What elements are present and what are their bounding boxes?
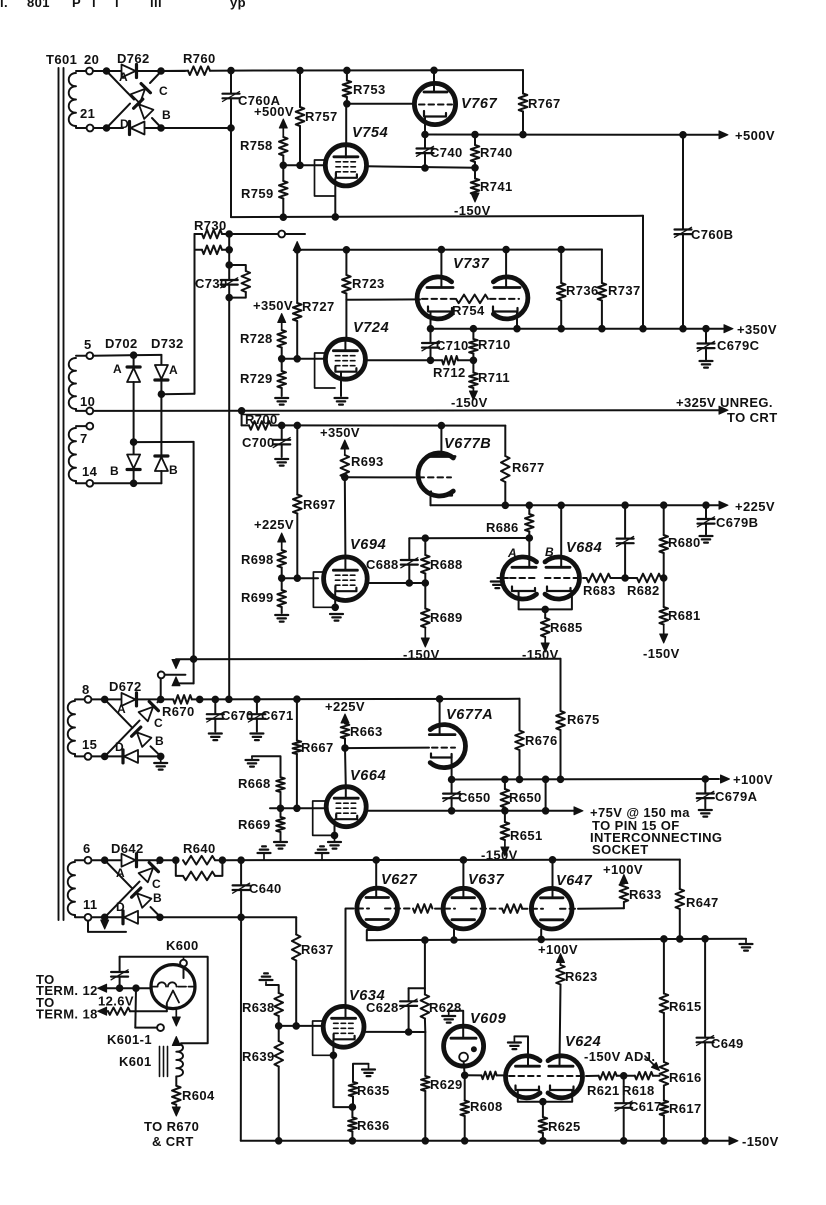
V767 cathode lead bbox=[424, 117, 426, 135]
wire jack stub bbox=[285, 233, 305, 235]
resistor parallel with C730 bbox=[229, 265, 246, 271]
ground below C670 bbox=[209, 732, 222, 734]
ground at R635 top bbox=[362, 1068, 375, 1070]
resistor R710 bbox=[472, 329, 474, 339]
label R700 box bbox=[243, 414, 279, 416]
node R608 bottom bbox=[461, 1138, 468, 1145]
diode D672 D bbox=[123, 750, 138, 763]
node R723 top bbox=[343, 247, 350, 254]
resistor R736 bbox=[557, 283, 566, 301]
V737 grid dashed line bbox=[422, 298, 455, 300]
resistor R615 bbox=[663, 939, 665, 994]
node C650 top bbox=[448, 776, 455, 783]
svg-text:R638: R638 bbox=[242, 1000, 275, 1015]
node V737 left plate bbox=[438, 246, 445, 253]
node R685 top bbox=[542, 606, 549, 613]
tube V754 bbox=[325, 145, 366, 186]
wire R753 to V767 grid bbox=[347, 103, 414, 105]
svg-text:C: C bbox=[159, 84, 168, 98]
resistor R685 bbox=[544, 609, 546, 618]
node cap top at 625 bbox=[622, 502, 629, 509]
ground below R669 bbox=[274, 841, 287, 843]
resistor R625 bbox=[542, 1102, 544, 1117]
node C640 top bbox=[238, 857, 245, 864]
diode D732 A bbox=[155, 365, 168, 380]
node R728 bottom bbox=[278, 356, 285, 363]
+100V low rail bbox=[367, 930, 377, 940]
resistor R650 bbox=[504, 779, 506, 789]
node V677B plate bbox=[438, 422, 445, 429]
terminal 11 bbox=[85, 914, 92, 921]
node R677 bottom bbox=[502, 502, 509, 509]
svg-text:R636: R636 bbox=[357, 1118, 390, 1133]
V634 internal electrodes bbox=[332, 1017, 356, 1020]
terminal 6 bbox=[85, 857, 92, 864]
wire D732 output to R730 riser bbox=[161, 393, 194, 396]
wire C760A bus down to cathode reference wire bbox=[230, 128, 232, 217]
V647 plate bbox=[541, 896, 564, 899]
wire V664 plate lead bbox=[344, 748, 347, 787]
node R697 top bbox=[294, 422, 301, 429]
wire V634 grid bbox=[279, 1025, 324, 1027]
svg-text:D672: D672 bbox=[109, 679, 142, 694]
K601 winding bbox=[176, 1044, 183, 1077]
svg-text:SOCKET: SOCKET bbox=[592, 842, 649, 857]
potentiometer R616 wiper arrow bbox=[645, 1056, 655, 1066]
grid coupling resistor V637-V647 bbox=[502, 904, 522, 913]
wire D642 bottom out bbox=[161, 916, 297, 918]
svg-text:R633: R633 bbox=[629, 887, 662, 902]
capacitor C730 bbox=[228, 265, 230, 280]
svg-text:11: 11 bbox=[83, 897, 98, 912]
wire V677B plate lead bbox=[440, 426, 442, 457]
resistor R640b bbox=[176, 860, 183, 876]
-150V bottom rail bbox=[241, 1140, 729, 1142]
arrowhead +500V bbox=[719, 131, 728, 139]
node R753 top bbox=[344, 67, 351, 74]
resistor R767 bbox=[522, 70, 524, 93]
resistor R608 bbox=[464, 1075, 466, 1100]
node R625 top bbox=[540, 1098, 547, 1105]
resistor R669 bbox=[280, 808, 282, 817]
capacitor C688 bbox=[408, 538, 410, 560]
node R676 bottom bbox=[516, 776, 523, 783]
node C740 bottom bbox=[422, 165, 429, 172]
svg-text:lll: lll bbox=[150, 0, 162, 10]
svg-text:B: B bbox=[162, 108, 171, 122]
svg-text:R650: R650 bbox=[509, 790, 542, 805]
wire to V694 grid bbox=[282, 577, 318, 579]
node C688 bottom bbox=[406, 580, 413, 587]
V677A grid dashes bbox=[432, 747, 455, 749]
V609 inner dot bbox=[471, 1047, 476, 1052]
V737 left plate bbox=[427, 286, 453, 289]
node R753 bottom / V754 plate bbox=[344, 101, 351, 108]
resistor R663 bbox=[341, 724, 350, 739]
svg-text:R741: R741 bbox=[480, 179, 513, 194]
V694 internal electrodes bbox=[333, 569, 357, 572]
node bottom-right of D762 bridge bbox=[158, 125, 165, 132]
svg-text:C640: C640 bbox=[249, 881, 282, 896]
transformer winding 6-11 bbox=[75, 859, 85, 861]
node R698 bottom bbox=[278, 575, 285, 582]
node C730 bottom bbox=[226, 294, 233, 301]
ground below R729 bbox=[275, 397, 288, 399]
capacitor C710 bbox=[430, 329, 432, 343]
svg-text:20: 20 bbox=[84, 52, 99, 67]
V724 grid side bracket bbox=[315, 353, 335, 388]
svg-text:P: P bbox=[72, 0, 81, 10]
svg-text:+325V UNREG.: +325V UNREG. bbox=[676, 395, 773, 410]
node D642 bottom-right bbox=[157, 914, 164, 921]
V684 grid dashed bbox=[510, 577, 536, 579]
node R638 bottom bbox=[275, 1023, 282, 1030]
V677B grid dashes bbox=[428, 476, 451, 478]
node R693 bottom bbox=[342, 474, 349, 481]
tube V634 bbox=[323, 1006, 364, 1047]
svg-text:R663: R663 bbox=[350, 724, 383, 739]
wire D702 out to long riser bbox=[134, 441, 194, 443]
svg-text:R618: R618 bbox=[622, 1083, 655, 1098]
capacitor K600 feed bbox=[119, 957, 121, 972]
resistor R700 bbox=[242, 424, 249, 426]
node R730b right bbox=[226, 247, 233, 254]
svg-text:V677B: V677B bbox=[444, 436, 491, 452]
wire R686 bottom rail y=538 bbox=[409, 537, 529, 539]
svg-text:R727: R727 bbox=[302, 299, 335, 314]
resistor R760 bbox=[161, 70, 188, 72]
resistor R683 bbox=[587, 574, 611, 583]
svg-text:R710: R710 bbox=[478, 337, 511, 352]
node V737 right plate bbox=[503, 246, 510, 253]
resistor R740 bbox=[474, 135, 476, 145]
svg-text:B: B bbox=[110, 464, 119, 478]
svg-text:l.: l. bbox=[0, 0, 8, 10]
resistor R668 bbox=[276, 777, 285, 792]
node R759 bottom bbox=[280, 214, 287, 221]
terminal 7 bbox=[86, 423, 93, 430]
node D702 column top bbox=[130, 352, 137, 359]
node R688 bottom bbox=[422, 580, 429, 587]
svg-text:l: l bbox=[92, 0, 96, 10]
node R635 bottom bbox=[349, 1104, 356, 1111]
D672 diagonal with diode B bbox=[105, 699, 133, 728]
node C760B bottom bbox=[680, 325, 687, 332]
node R647 bottom bbox=[677, 936, 684, 943]
node R615 top bbox=[661, 936, 668, 943]
svg-text:R623: R623 bbox=[565, 969, 598, 984]
svg-text:R759: R759 bbox=[241, 186, 274, 201]
node R686 bottom bbox=[526, 535, 533, 542]
resistor to V624 A grid bbox=[465, 1074, 482, 1076]
node R675 bottom bbox=[557, 776, 564, 783]
node R697 bottom bbox=[294, 575, 301, 582]
stub arrow down to jack bbox=[175, 659, 177, 661]
svg-text:TO CRT: TO CRT bbox=[727, 410, 778, 425]
svg-text:R682: R682 bbox=[627, 583, 660, 598]
capacitor C671 bbox=[256, 699, 258, 714]
node C617 bottom bbox=[620, 1138, 627, 1145]
tube V767 bbox=[414, 83, 455, 124]
node D672 bottom-left bbox=[101, 753, 108, 760]
wire cathode reference y=217 bbox=[231, 216, 643, 217]
jack circle D672 bbox=[158, 672, 165, 679]
diode D732 B bbox=[155, 456, 168, 471]
stub arrow below D642 junction bbox=[104, 918, 106, 922]
node R686 top bbox=[526, 502, 533, 509]
svg-text:D762: D762 bbox=[117, 51, 150, 66]
svg-text:R754: R754 bbox=[452, 303, 485, 318]
V664 internal electrodes bbox=[334, 797, 358, 800]
svg-text:+350V: +350V bbox=[320, 425, 360, 440]
tube V684 B half bbox=[545, 557, 579, 599]
V624 cathode box bbox=[518, 1090, 572, 1102]
wire -150V raw bus bbox=[200, 698, 520, 701]
node V637 cathode bbox=[451, 937, 458, 944]
resistor R712 bbox=[431, 359, 443, 361]
svg-text:V637: V637 bbox=[468, 872, 505, 888]
resistor R629 bbox=[424, 1032, 426, 1076]
svg-text:C670: C670 bbox=[221, 708, 254, 723]
node V677A plate bbox=[436, 696, 443, 703]
V694 output exit bbox=[367, 582, 425, 584]
V624 grid dashed bbox=[509, 1075, 540, 1077]
svg-text:R604: R604 bbox=[182, 1088, 215, 1103]
wire V754 plate lead bbox=[345, 104, 347, 146]
svg-text:R688: R688 bbox=[430, 557, 463, 572]
svg-text:K601-1: K601-1 bbox=[107, 1032, 152, 1047]
node R758-R759 junction bbox=[280, 162, 287, 169]
V647 cathode lead bbox=[540, 930, 542, 940]
wire V724 plate lead bbox=[345, 300, 347, 340]
jack K601 bbox=[134, 988, 137, 1027]
svg-text:R740: R740 bbox=[480, 145, 513, 160]
V647 cathode bbox=[541, 918, 564, 921]
node C649 top bbox=[702, 936, 709, 943]
svg-text:V627: V627 bbox=[381, 872, 418, 888]
+100V rail bbox=[452, 778, 719, 781]
wire R635 top elbow bbox=[353, 1064, 369, 1082]
D672 diagonal with diode C bbox=[105, 721, 140, 757]
node V647 cathode bbox=[538, 936, 545, 943]
node C679C top bbox=[703, 325, 710, 332]
node R710 top bbox=[470, 325, 477, 332]
ground below C700 bbox=[275, 458, 288, 460]
resistor R727 bbox=[296, 250, 298, 303]
svg-text:V694: V694 bbox=[350, 537, 386, 553]
node V737 right cathode rail bbox=[514, 325, 521, 332]
svg-text:R712: R712 bbox=[433, 365, 466, 380]
wire terminal 20 to D762 bbox=[93, 70, 121, 72]
svg-text:C679C: C679C bbox=[717, 338, 760, 353]
stub arrow +225V R698 bbox=[281, 540, 283, 550]
capacitor C617 bbox=[623, 1076, 625, 1103]
svg-text:R737: R737 bbox=[608, 283, 641, 298]
wire R663 to V677A grid bbox=[345, 747, 429, 750]
tube V694 bbox=[324, 557, 368, 601]
wire V737 plate rail y=249.8 bbox=[297, 249, 602, 251]
svg-text:R647: R647 bbox=[686, 895, 719, 910]
arrowhead +75V bbox=[574, 807, 583, 815]
bridge diagonal with diode B bbox=[107, 71, 135, 100]
svg-text:T601: T601 bbox=[46, 52, 77, 67]
resistor R729 bbox=[281, 359, 283, 371]
node R688 top bbox=[422, 535, 429, 542]
svg-text:l: l bbox=[115, 0, 119, 10]
node R740 top bbox=[472, 131, 479, 138]
capacitor C649 bbox=[704, 939, 706, 1038]
V767 internal electrodes bbox=[424, 91, 447, 94]
node R663 bottom bbox=[342, 745, 349, 752]
capacitor C679C bbox=[705, 329, 707, 344]
diode D672 A bbox=[105, 698, 121, 700]
svg-text:R668: R668 bbox=[238, 776, 271, 791]
resistor R640a bbox=[160, 859, 176, 861]
svg-text:R685: R685 bbox=[550, 620, 583, 635]
resistor R689 bbox=[424, 583, 426, 609]
node R640 right bbox=[219, 857, 226, 864]
terminal 21 bbox=[87, 125, 94, 132]
V624 B plate bbox=[549, 1065, 573, 1068]
V609 inner circle bbox=[459, 1053, 468, 1062]
resistor R677 bbox=[504, 426, 506, 456]
svg-text:+500V: +500V bbox=[254, 104, 294, 119]
V754 internal electrodes bbox=[334, 155, 358, 158]
node D642 bottom-left bbox=[101, 914, 108, 921]
V609 plate bar bbox=[451, 1037, 476, 1040]
node C760B top bbox=[680, 132, 687, 139]
wire terminal 6 top bbox=[92, 859, 105, 861]
V627 cathode lead small bbox=[376, 929, 378, 930]
K601 winding up arrow bbox=[172, 1037, 180, 1046]
V624 cathodes bbox=[516, 1086, 540, 1091]
resistor R759 bbox=[282, 165, 284, 181]
resistor R711 bbox=[472, 360, 474, 372]
svg-text:TERM. 18: TERM. 18 bbox=[36, 1007, 98, 1022]
stub arrow up to jack bbox=[175, 682, 177, 685]
svg-text:R757: R757 bbox=[305, 109, 338, 124]
svg-text:801: 801 bbox=[27, 0, 50, 10]
capacitor C679B bbox=[705, 505, 707, 519]
resistor R637 bbox=[295, 917, 297, 934]
svg-text:V664: V664 bbox=[350, 768, 386, 784]
svg-text:R728: R728 bbox=[240, 331, 273, 346]
node R727 bottom bbox=[294, 356, 301, 363]
wire R668 top elbow bbox=[252, 756, 281, 777]
wire top bus junction bbox=[228, 67, 235, 74]
ground at +100V rail end bbox=[745, 939, 747, 943]
resistor R651 bbox=[504, 811, 506, 822]
resistor R699 bbox=[281, 578, 283, 590]
wire raw bus corner down bbox=[679, 860, 681, 889]
transformer winding 5-10 bbox=[76, 355, 87, 357]
svg-text:C688: C688 bbox=[366, 557, 399, 572]
svg-text:R617: R617 bbox=[669, 1101, 702, 1116]
resistor R741 bbox=[474, 168, 476, 179]
wire -150V feed y=659 bbox=[176, 658, 561, 660]
wire D732 column top bbox=[160, 355, 162, 366]
svg-text:R635: R635 bbox=[357, 1083, 390, 1098]
V637 cathode lead bbox=[453, 930, 455, 941]
D642 diagonal with diode B bbox=[105, 860, 133, 889]
+350V rail bbox=[431, 328, 724, 330]
svg-text:14: 14 bbox=[82, 464, 98, 479]
node R736 top bbox=[558, 246, 565, 253]
wire R693 to V677B grid bbox=[345, 476, 424, 478]
svg-text:R675: R675 bbox=[567, 712, 600, 727]
tube V627 bbox=[357, 888, 398, 929]
svg-text:K600: K600 bbox=[166, 938, 199, 953]
wire TERM 18 heater bbox=[98, 1007, 107, 1015]
diode D702 A bbox=[127, 367, 140, 382]
wire TERM 12 bbox=[104, 987, 151, 989]
svg-text:R681: R681 bbox=[668, 608, 701, 623]
tube V684 A half bbox=[502, 557, 536, 599]
wire R700 elbow bbox=[241, 411, 243, 426]
resistor R635 bbox=[349, 1082, 358, 1097]
node R637 bottom bbox=[293, 1023, 300, 1030]
node C628 bottom bbox=[405, 1029, 412, 1036]
svg-text:+100V: +100V bbox=[733, 772, 773, 787]
node top-right of D762 bridge bbox=[158, 68, 165, 75]
V737 right plate bbox=[494, 286, 520, 289]
svg-text:V677A: V677A bbox=[446, 707, 493, 723]
ground at R638 top bbox=[266, 985, 279, 993]
svg-text:R651: R651 bbox=[510, 828, 543, 843]
transformer T601 winding 20-21 bbox=[76, 70, 86, 72]
svg-text:C700: C700 bbox=[242, 435, 275, 450]
node C628 feed bbox=[422, 937, 429, 944]
wire R693 down to V694 plate bbox=[344, 477, 347, 557]
wire C730 bus upper bbox=[228, 234, 230, 265]
ground below D672 out bbox=[154, 762, 167, 764]
resistor R753 bbox=[346, 70, 348, 80]
ground at V609 top bbox=[442, 1015, 455, 1017]
resistor R688 bbox=[424, 538, 426, 555]
node R625 bottom bbox=[540, 1138, 547, 1145]
node jack riser at term12 wire bbox=[133, 985, 140, 992]
K601 core bbox=[159, 1046, 161, 1076]
svg-text:C628: C628 bbox=[366, 1000, 399, 1015]
svg-text:R697: R697 bbox=[303, 497, 336, 512]
V677A plate bar bbox=[429, 733, 455, 736]
stub arrow to +500V bbox=[282, 126, 284, 137]
wire terminal 8 top bbox=[92, 698, 105, 700]
node R636 bottom bbox=[349, 1138, 356, 1145]
wire V627 grid to V634 plate bbox=[346, 909, 349, 1007]
svg-text:C650: C650 bbox=[458, 790, 491, 805]
wire C640 bus down bbox=[240, 917, 242, 1141]
stub arrow +225V R663 bbox=[344, 721, 346, 724]
svg-text:10: 10 bbox=[80, 394, 95, 409]
node R683-R682 junction bbox=[622, 575, 629, 582]
potentiometer R616 bbox=[663, 1013, 665, 1062]
wire R730 to open jack bbox=[229, 233, 278, 235]
stub arrow +350V R728 bbox=[281, 321, 283, 331]
diode D702 B bbox=[127, 455, 140, 470]
V684 A plate bbox=[512, 566, 536, 569]
V634 output exit bbox=[364, 1031, 425, 1033]
svg-text:R637: R637 bbox=[301, 942, 334, 957]
resistor R675 bbox=[556, 711, 565, 730]
node V754 cathode bbox=[332, 214, 339, 221]
svg-text:A: A bbox=[113, 362, 122, 376]
K600 armature bbox=[167, 991, 179, 1003]
ground at R668 top bbox=[251, 756, 253, 758]
svg-text:6: 6 bbox=[83, 841, 91, 856]
V724 cathode exit bbox=[365, 359, 430, 361]
tube V677A half bbox=[430, 725, 465, 768]
